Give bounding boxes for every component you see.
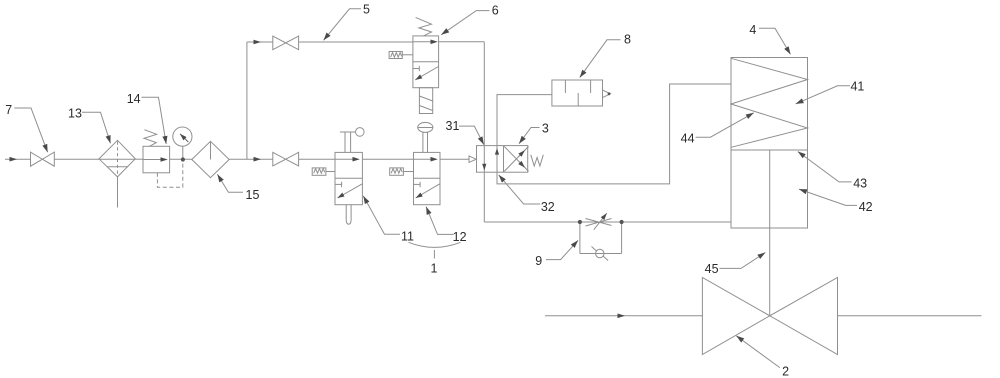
svg-text:43: 43 — [853, 176, 867, 190]
svg-text:15: 15 — [246, 188, 260, 202]
svg-text:41: 41 — [850, 80, 864, 94]
svg-text:45: 45 — [705, 262, 719, 276]
svg-text:13: 13 — [68, 107, 82, 121]
svg-text:5: 5 — [363, 2, 370, 16]
svg-text:42: 42 — [859, 200, 873, 214]
svg-text:1: 1 — [431, 261, 438, 275]
svg-text:44: 44 — [681, 132, 695, 146]
svg-text:11: 11 — [401, 229, 414, 243]
svg-text:32: 32 — [541, 200, 555, 214]
svg-text:4: 4 — [749, 23, 756, 37]
svg-text:7: 7 — [5, 103, 12, 117]
svg-text:9: 9 — [535, 254, 542, 268]
svg-text:3: 3 — [542, 121, 549, 135]
svg-text:12: 12 — [453, 230, 467, 244]
svg-text:8: 8 — [624, 33, 631, 47]
svg-text:6: 6 — [492, 4, 499, 18]
svg-text:14: 14 — [127, 92, 141, 106]
svg-text:31: 31 — [446, 119, 460, 133]
svg-text:2: 2 — [782, 364, 789, 378]
